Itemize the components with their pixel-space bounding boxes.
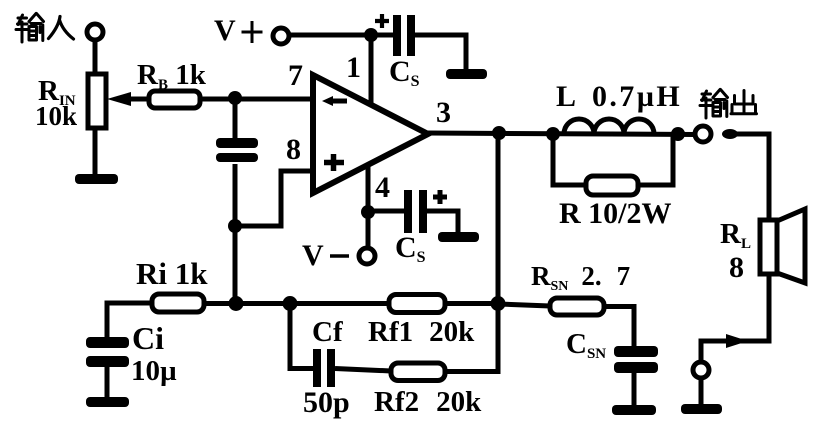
wire Csn to ground bbox=[632, 372, 637, 407]
wire node to Cs bottom bbox=[368, 209, 405, 214]
capacitor Cf 50p bbox=[303, 316, 350, 419]
svg-text:Ri 1k: Ri 1k bbox=[136, 256, 208, 291]
wire pot to ground bbox=[93, 128, 98, 176]
arrow on wire bbox=[726, 334, 748, 348]
V+ terminal bbox=[273, 28, 289, 44]
wire speaker to bottom terminal bbox=[701, 274, 769, 363]
node main bbox=[229, 296, 244, 311]
ground bottom right bbox=[681, 404, 722, 414]
feedback vertical wire bbox=[496, 133, 501, 304]
svg-text:3: 3 bbox=[436, 96, 451, 129]
wire node down to cap bbox=[233, 99, 238, 140]
resistor R_B 1k bbox=[137, 59, 207, 108]
op-amp U1 bbox=[313, 75, 428, 193]
resistor Rf2 20k bbox=[374, 363, 482, 418]
svg-text:V: V bbox=[214, 14, 236, 47]
node to pin8 bbox=[228, 219, 242, 233]
wire input to pot bbox=[93, 40, 98, 74]
wire pin 4 down bbox=[366, 163, 371, 249]
wire Rsn to Csn bbox=[604, 307, 634, 349]
svg-text:8: 8 bbox=[729, 251, 744, 284]
svg-text:7: 7 bbox=[288, 59, 303, 92]
label 输出 (output) bbox=[700, 90, 757, 119]
svg-text:L: L bbox=[556, 80, 576, 113]
svg-text:Cf: Cf bbox=[312, 316, 343, 348]
wire to ground bbox=[699, 378, 704, 406]
wire node to pin 1 bbox=[369, 35, 374, 106]
wire Cs bottom to ground bbox=[427, 211, 458, 234]
plug dash bbox=[722, 129, 738, 139]
ground under Ci bbox=[86, 397, 129, 407]
capacitor Cs (bottom) bbox=[395, 190, 447, 266]
wiper arrow bbox=[107, 92, 150, 106]
wire cap down to lower rail bbox=[233, 164, 238, 306]
lower rail wire bbox=[204, 301, 389, 306]
svg-text:Ci: Ci bbox=[132, 320, 164, 356]
node fb right bbox=[491, 296, 506, 311]
ground top right bbox=[446, 69, 487, 79]
node fb lower bbox=[283, 296, 298, 311]
node L right bbox=[671, 127, 685, 141]
wire R_B to pin7 bbox=[200, 97, 313, 102]
svg-text:1: 1 bbox=[346, 51, 361, 84]
svg-text:0.7µH: 0.7µH bbox=[592, 80, 682, 113]
resistor Ri 1k bbox=[136, 256, 208, 312]
bottom-right terminal bbox=[693, 362, 709, 378]
capacitor Cs (top) bbox=[375, 14, 420, 90]
svg-text:RB 1k: RB 1k bbox=[137, 59, 207, 93]
wire node to Rsn bbox=[498, 304, 550, 306]
svg-text:4: 4 bbox=[375, 171, 390, 204]
wire V+ to Cs bbox=[289, 33, 394, 38]
node L left bbox=[546, 127, 560, 141]
node feedback tap bbox=[492, 126, 506, 140]
svg-text:V: V bbox=[302, 239, 324, 272]
svg-text:50p: 50p bbox=[303, 386, 350, 419]
wire node to pin 8 bbox=[235, 171, 313, 226]
V- terminal bbox=[359, 248, 375, 264]
label 输入 (input) bbox=[16, 14, 74, 43]
potentiometer R_IN 10k bbox=[35, 74, 106, 131]
wire Rf1 to node bbox=[445, 301, 498, 306]
ground mid bbox=[438, 232, 479, 242]
capacitor C_SN bbox=[566, 328, 658, 373]
svg-text:8: 8 bbox=[286, 133, 301, 166]
inductor L 0.7uH bbox=[556, 80, 682, 134]
input coupling capacitor bbox=[216, 138, 258, 162]
node at pin7 line bbox=[228, 91, 242, 105]
resistor Rf1 20k bbox=[368, 295, 475, 349]
capacitor Ci 10u bbox=[86, 320, 177, 387]
svg-text:R 10/2W: R 10/2W bbox=[559, 197, 672, 230]
node pin4 bbox=[361, 205, 375, 219]
input terminal bbox=[87, 24, 103, 40]
output wire pin3 bbox=[427, 133, 695, 135]
wire Ri left to Ci bbox=[107, 303, 152, 339]
wire Cf to Rf2 bbox=[335, 369, 391, 372]
wire to speaker bbox=[736, 134, 769, 221]
wire Cs to ground bbox=[415, 35, 466, 71]
ground under Csn bbox=[612, 405, 656, 415]
speaker R_L 8 bbox=[720, 209, 805, 284]
wire Ci to ground bbox=[105, 367, 110, 399]
lower feedback branch wire bbox=[290, 304, 315, 369]
resistor R_SN 2.7 bbox=[531, 261, 630, 315]
wire Rf2 up to node bbox=[445, 304, 498, 372]
svg-text:10µ: 10µ bbox=[131, 355, 177, 387]
node pin1 bbox=[364, 28, 378, 42]
svg-text:10k: 10k bbox=[35, 101, 77, 131]
resistor R 10/2W parallel path bbox=[553, 134, 673, 230]
ground under R_IN bbox=[75, 174, 118, 184]
output terminal bbox=[695, 126, 711, 142]
